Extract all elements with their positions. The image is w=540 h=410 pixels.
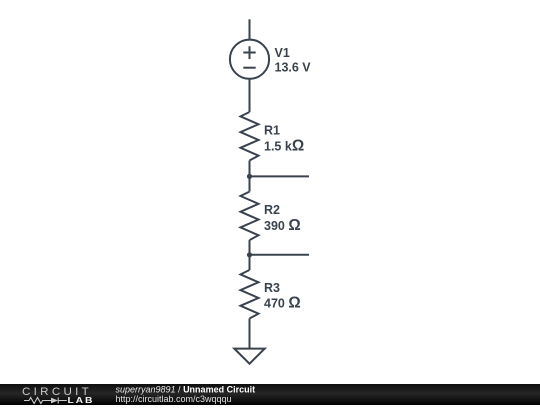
svg-text:13.6 V: 13.6 V	[275, 61, 312, 75]
wire V1 to R1	[249, 79, 251, 112]
wire R2 to R3 through node B	[249, 240, 251, 270]
wire top terminal to V1	[249, 19, 251, 39]
voltage source V1 circle	[230, 40, 269, 79]
svg-text:470 Ω: 470 Ω	[264, 295, 301, 312]
svg-text:1.5 kΩ: 1.5 kΩ	[264, 137, 304, 154]
wire R1 to R2 through node A	[249, 161, 251, 192]
node B junction dot	[247, 252, 252, 257]
resistor R1 zigzag	[241, 112, 259, 161]
svg-text:V1: V1	[275, 46, 290, 60]
footer bar	[0, 384, 540, 405]
resistor R2 zigzag	[241, 192, 259, 241]
V1 minus sign	[243, 67, 255, 69]
resistor R3 zigzag	[241, 270, 259, 319]
CircuitLab logo resistor-diode squiggle	[24, 398, 67, 404]
node A junction dot	[247, 174, 252, 179]
svg-text:R3: R3	[264, 281, 280, 295]
wire node A tap right	[250, 175, 310, 177]
V1 plus sign	[243, 46, 255, 59]
wire node B tap right	[250, 254, 310, 256]
wire R3 to ground	[249, 319, 251, 349]
CircuitLab logo diode arrow	[51, 398, 58, 404]
svg-text:LAB: LAB	[68, 396, 95, 405]
svg-text:390 Ω: 390 Ω	[264, 217, 301, 234]
svg-text:http://circuitlab.com/c3wqqqu: http://circuitlab.com/c3wqqqu	[116, 394, 232, 404]
ground symbol	[234, 349, 264, 364]
svg-text:R2: R2	[264, 203, 280, 217]
svg-text:R1: R1	[264, 124, 280, 138]
svg-text:superryan9891 / Unnamed Circui: superryan9891 / Unnamed Circuit	[116, 384, 256, 394]
